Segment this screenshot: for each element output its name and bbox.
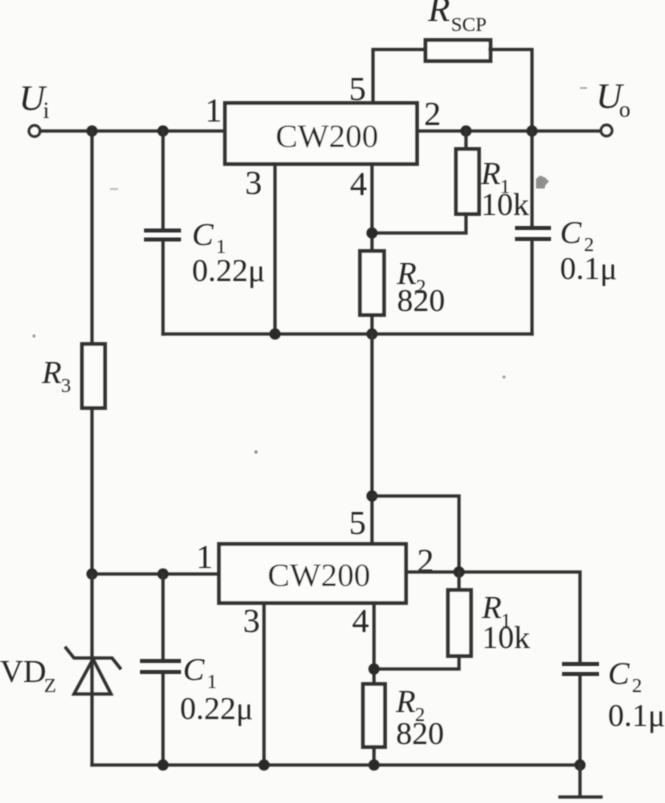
wire: R2 bottom lead (upper): [370, 315, 373, 334]
svg-text:2: 2: [424, 96, 441, 133]
capacitor C1 (lower) plates: [140, 661, 181, 672]
wire: RSCP to output column: [490, 50, 532, 132]
zener diode VDZ cathode bar: [66, 648, 120, 668]
capacitor C2 (upper) plates: [515, 228, 551, 239]
resistor RSCP: [426, 40, 491, 61]
wire: R3 bottom to lower rail: [90, 408, 93, 574]
svg-text:0.22μ: 0.22μ: [180, 690, 253, 726]
terminal Ui: [29, 126, 40, 137]
wire: R2 bottom lead (lower): [372, 747, 375, 765]
terminal Uo: [601, 125, 612, 136]
svg-text:10k: 10k: [482, 619, 530, 655]
zener diode VDZ triangle: [74, 659, 111, 694]
wire: middle link between stages: [370, 334, 373, 542]
svg-text:820: 820: [397, 282, 445, 318]
wire: R1 bottom to pin4 node (upper): [372, 214, 466, 233]
wire: pin 2 rail (lower): [406, 572, 580, 662]
svg-text:5: 5: [349, 71, 366, 108]
svg-text:2: 2: [632, 675, 642, 697]
svg-text:CW200: CW200: [276, 119, 379, 155]
svg-text:0.1μ: 0.1μ: [560, 250, 617, 286]
svg-text:4: 4: [350, 166, 367, 203]
node: lower rail at R3/VDZ: [86, 568, 97, 579]
svg-text:CW200: CW200: [268, 558, 371, 594]
speck: [32, 334, 35, 337]
svg-text:C: C: [608, 655, 630, 691]
ground: [560, 765, 601, 797]
svg-text:4: 4: [352, 603, 369, 640]
node: pin2/R1 junction (lower): [453, 566, 464, 577]
resistor R2 (upper): [360, 251, 384, 315]
node: ground rail at C2 (lower): [574, 759, 585, 770]
capacitor C1 (lower) leads: [161, 574, 164, 765]
wire: R1 bottom to pin4 node (lower): [374, 656, 459, 669]
svg-text:1: 1: [196, 539, 213, 576]
capacitor C1 (upper) plates: [144, 231, 181, 240]
wire: pin 3 lead (upper): [273, 164, 276, 334]
speck: [110, 188, 118, 190]
wire: lower input rail: [92, 572, 219, 575]
resistor R2 (lower): [363, 684, 385, 747]
node: ground rail at pin3 (lower): [258, 759, 269, 770]
node: stage link junction: [366, 490, 377, 501]
wire: upper section bottom rail: [163, 332, 532, 335]
wire: pin 4 lead (lower): [372, 603, 375, 684]
capacitor C2 (lower) plates: [562, 664, 599, 674]
svg-text:2: 2: [417, 543, 434, 580]
node: pin2/R1 junction: [460, 125, 471, 136]
svg-text:10k: 10k: [481, 186, 529, 222]
svg-text:R: R: [427, 0, 450, 29]
node: ground rail at C1 (lower): [157, 759, 168, 770]
svg-text:1: 1: [205, 93, 222, 130]
svg-text:SCP: SCP: [451, 14, 487, 36]
zener diode VDZ lead: [90, 574, 93, 765]
speck: [503, 376, 506, 379]
node: pin4/R1/R2 junction (lower): [368, 663, 379, 674]
svg-text:i: i: [43, 98, 49, 123]
node: lower rail at C1: [157, 568, 168, 579]
wire: left column through R3: [90, 131, 93, 344]
wire: top input rail: [40, 129, 225, 132]
svg-text:VD: VD: [0, 653, 46, 689]
node: input junction at R3: [86, 125, 97, 136]
svg-text:3: 3: [61, 375, 71, 397]
svg-text:3: 3: [243, 603, 260, 640]
wire: pin 5 up and over to RSCP: [373, 50, 426, 104]
capacitor C2 (upper) leads: [530, 131, 533, 334]
op-amp U2: CW200 (lower regulator IC): [219, 544, 406, 603]
node: output/C2 junction: [526, 125, 537, 136]
svg-text:Z: Z: [44, 675, 56, 697]
resistor R3: [82, 344, 105, 408]
wire: R1 top lead (lower): [457, 572, 460, 590]
wire: R1 top lead (upper): [464, 131, 467, 149]
svg-text:3: 3: [245, 165, 262, 202]
svg-text:0.22μ: 0.22μ: [192, 252, 265, 288]
node: pin4/R1/R2 junction (upper): [366, 227, 377, 238]
svg-text:0.1μ: 0.1μ: [608, 697, 665, 733]
op-amp U1: CW200 (upper regulator IC): [225, 103, 417, 164]
svg-text:C: C: [192, 216, 214, 252]
svg-text:5: 5: [349, 505, 366, 542]
svg-text:o: o: [619, 97, 631, 122]
node: input junction at C1: [157, 125, 168, 136]
capacitor C2 (lower) leads: [578, 676, 581, 765]
node: pin3 on bottom rail (upper): [269, 328, 280, 339]
resistor R1 (lower): [448, 590, 471, 656]
resistor R1 (upper): [456, 149, 479, 214]
svg-text:C: C: [560, 214, 582, 250]
wire: link over to pin 2 (lower): [372, 496, 459, 572]
wire: pin 3 lead (lower): [262, 603, 265, 765]
capacitor C1 (upper) leads: [161, 131, 164, 334]
artifact: gray arrow: [536, 176, 549, 189]
speck: [254, 450, 257, 453]
node: ground rail at R2 (lower): [368, 759, 379, 770]
svg-text:C: C: [183, 651, 205, 687]
svg-text:R: R: [395, 683, 416, 719]
node: R2 on bottom rail (upper): [366, 328, 377, 339]
speck: [580, 87, 587, 89]
wire: pin 4 lead (upper): [370, 164, 373, 251]
svg-text:R: R: [41, 354, 62, 390]
wire: bottom ground rail: [92, 763, 580, 766]
wire: pin 2 output rail: [417, 129, 600, 132]
svg-text:820: 820: [396, 715, 444, 751]
